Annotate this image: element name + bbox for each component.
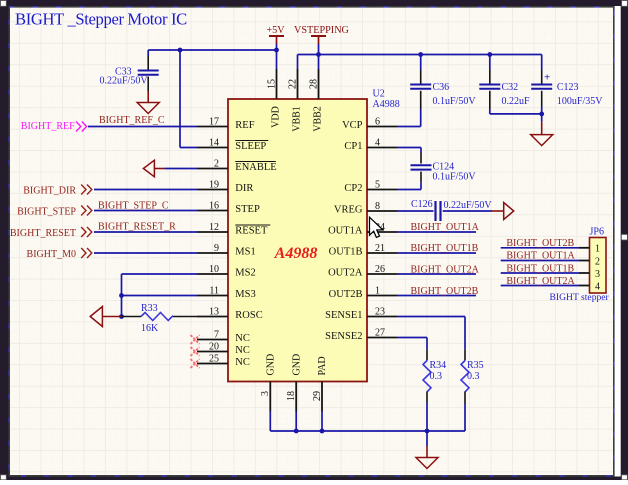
- svg-text:3: 3: [595, 269, 600, 280]
- svg-text:A4988: A4988: [274, 245, 318, 262]
- svg-text:A4988: A4988: [373, 99, 400, 110]
- svg-text:28: 28: [308, 79, 319, 89]
- svg-text:MS3: MS3: [235, 289, 255, 300]
- svg-text:CP2: CP2: [344, 183, 362, 194]
- svg-text:BIGHT_OUT1A: BIGHT_OUT1A: [411, 222, 480, 233]
- svg-text:BIGHT_REF: BIGHT_REF: [21, 121, 75, 132]
- svg-text:0.22uF/50V: 0.22uF/50V: [100, 75, 149, 86]
- svg-text:ROSC: ROSC: [235, 310, 262, 321]
- svg-text:OUT2B: OUT2B: [329, 289, 363, 300]
- svg-text:BIGHT_OUT1A: BIGHT_OUT1A: [506, 251, 575, 262]
- svg-text:BIGHT_OUT1B: BIGHT_OUT1B: [411, 243, 479, 254]
- svg-text:23: 23: [375, 306, 385, 317]
- svg-text:BIGHT_OUT2A: BIGHT_OUT2A: [506, 276, 575, 287]
- svg-text:OUT1A: OUT1A: [328, 225, 363, 236]
- svg-text:19: 19: [209, 179, 219, 190]
- svg-text:BIGHT_DIR: BIGHT_DIR: [23, 185, 76, 196]
- svg-text:VBB1: VBB1: [292, 106, 303, 132]
- svg-text:C32: C32: [502, 82, 519, 93]
- svg-text:11: 11: [209, 285, 219, 296]
- svg-text:21: 21: [375, 243, 385, 254]
- svg-text:VBB2: VBB2: [313, 106, 324, 132]
- svg-text:5: 5: [375, 179, 380, 190]
- svg-text:13: 13: [209, 306, 219, 317]
- svg-text:MS1: MS1: [235, 246, 255, 257]
- svg-text:7: 7: [214, 329, 219, 340]
- svg-text:6: 6: [375, 116, 380, 127]
- svg-text:NC: NC: [235, 357, 250, 368]
- svg-text:SENSE2: SENSE2: [325, 331, 362, 342]
- svg-text:SENSE1: SENSE1: [325, 310, 362, 321]
- svg-text:STEP: STEP: [235, 204, 260, 215]
- svg-text:10: 10: [209, 264, 219, 275]
- svg-text:1: 1: [375, 285, 380, 296]
- svg-text:4: 4: [375, 137, 380, 148]
- svg-text:0.3: 0.3: [467, 371, 480, 382]
- svg-text:R33: R33: [141, 303, 158, 314]
- svg-text:GND: GND: [266, 354, 277, 376]
- svg-text:4: 4: [595, 281, 600, 292]
- svg-text:CP1: CP1: [344, 141, 362, 152]
- svg-text:+5V: +5V: [266, 25, 285, 36]
- svg-text:BIGHT_M0: BIGHT_M0: [27, 249, 76, 260]
- svg-text:22: 22: [287, 79, 298, 89]
- svg-text:100uF/35V: 100uF/35V: [557, 96, 603, 107]
- svg-text:15: 15: [266, 79, 277, 89]
- svg-text:0.3: 0.3: [430, 371, 443, 382]
- svg-text:BIGHT_OUT2B: BIGHT_OUT2B: [411, 286, 479, 297]
- svg-text:0.22uF/50V: 0.22uF/50V: [444, 200, 493, 211]
- svg-text:12: 12: [209, 222, 219, 233]
- svg-text:BIGHT _Stepper Motor IC: BIGHT _Stepper Motor IC: [15, 9, 187, 28]
- svg-text:18: 18: [286, 391, 297, 401]
- svg-text:BIGHT_STEP: BIGHT_STEP: [17, 206, 76, 217]
- svg-text:VDD: VDD: [271, 106, 282, 128]
- svg-text:0.1uF/50V: 0.1uF/50V: [433, 96, 477, 107]
- svg-text:16: 16: [209, 200, 219, 211]
- svg-text:BIGHT_STEP_C: BIGHT_STEP_C: [98, 201, 169, 212]
- svg-text:PAD: PAD: [317, 356, 328, 375]
- svg-text:14: 14: [209, 137, 219, 148]
- svg-text:20: 20: [209, 341, 219, 352]
- svg-text:REF: REF: [235, 120, 254, 131]
- svg-text:SLEEP: SLEEP: [235, 141, 266, 152]
- svg-text:2: 2: [214, 158, 219, 169]
- svg-text:GND: GND: [291, 354, 302, 376]
- svg-text:RESET: RESET: [235, 225, 268, 236]
- svg-text:R35: R35: [467, 360, 484, 371]
- svg-text:MS2: MS2: [235, 267, 255, 278]
- svg-text:0.1uF/50V: 0.1uF/50V: [433, 172, 477, 183]
- svg-text:BIGHT_OUT1B: BIGHT_OUT1B: [506, 263, 574, 274]
- svg-text:0.22uF: 0.22uF: [502, 96, 531, 107]
- svg-text:DIR: DIR: [235, 183, 253, 194]
- svg-text:NC: NC: [235, 345, 250, 356]
- svg-text:16K: 16K: [141, 323, 159, 334]
- svg-text:17: 17: [209, 116, 219, 127]
- svg-text:3: 3: [260, 391, 271, 396]
- svg-text:NC: NC: [235, 333, 250, 344]
- svg-text:26: 26: [375, 264, 385, 275]
- svg-text:C126: C126: [411, 199, 433, 210]
- svg-text:BIGHT_REF_C: BIGHT_REF_C: [99, 115, 165, 126]
- svg-text:BIGHT_RESET_R: BIGHT_RESET_R: [98, 222, 176, 233]
- svg-text:JP6: JP6: [590, 227, 604, 238]
- svg-text:8: 8: [375, 201, 380, 212]
- svg-text:C36: C36: [433, 82, 450, 93]
- svg-text:C123: C123: [557, 82, 579, 93]
- svg-text:2: 2: [595, 256, 600, 267]
- svg-text:OUT1B: OUT1B: [329, 246, 363, 257]
- svg-text:BIGHT stepper: BIGHT stepper: [550, 292, 610, 303]
- svg-text:VSTEPPING: VSTEPPING: [294, 25, 350, 36]
- svg-text:+: +: [544, 72, 550, 84]
- svg-text:VREG: VREG: [334, 204, 363, 215]
- svg-text:BIGHT_OUT2B: BIGHT_OUT2B: [506, 238, 574, 249]
- svg-text:OUT2A: OUT2A: [328, 267, 363, 278]
- svg-text:ENABLE: ENABLE: [235, 162, 276, 173]
- svg-text:BIGHT_RESET: BIGHT_RESET: [10, 228, 76, 239]
- svg-text:25: 25: [209, 353, 219, 364]
- svg-text:1: 1: [595, 244, 600, 255]
- svg-text:VCP: VCP: [342, 120, 363, 131]
- svg-text:BIGHT_OUT2A: BIGHT_OUT2A: [411, 265, 480, 276]
- svg-text:9: 9: [214, 243, 219, 254]
- svg-text:R34: R34: [430, 360, 447, 371]
- svg-text:27: 27: [375, 327, 385, 338]
- svg-text:29: 29: [312, 391, 323, 401]
